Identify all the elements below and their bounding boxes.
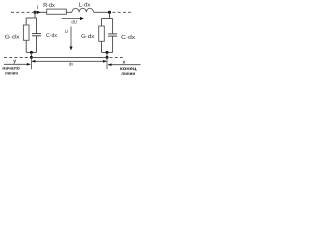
wire: bottom rail solid <box>31 56 107 58</box>
svg-text:i: i <box>37 4 38 11</box>
wire: right branch bottom join <box>102 51 113 53</box>
capacitor C·dx right (plates) <box>108 33 117 35</box>
node: bottom-right rail junction dot <box>106 56 109 59</box>
wire: top rail dashed lead-in (left) <box>11 11 33 13</box>
svg-text:y: y <box>13 59 16 65</box>
inductor L·dx (series, 3 arcs) <box>72 8 93 12</box>
svg-text:L·dx: L·dx <box>79 2 91 9</box>
wire: C1 bottom lead <box>36 36 38 53</box>
arrow dU (voltage differential) <box>62 18 82 20</box>
svg-text:C·dx: C·dx <box>46 33 57 39</box>
svg-text:dU: dU <box>71 20 77 25</box>
wire: G2 top lead <box>101 19 103 27</box>
extension line: left branch below rail <box>30 57 32 69</box>
svg-text:x: x <box>123 60 126 66</box>
wire: right node drop <box>109 12 111 18</box>
junction dot: right branch bottom <box>106 51 109 54</box>
svg-text:U: U <box>65 29 68 34</box>
svg-text:R·dx: R·dx <box>43 2 55 9</box>
wire: G1 top lead <box>25 18 27 25</box>
wire: G1 bottom lead <box>25 40 27 52</box>
arrow U (voltage, downward) <box>70 27 72 49</box>
capacitor C·dx left (plates) <box>32 33 41 35</box>
current arrow i (arrowhead on top rail) <box>37 11 41 14</box>
node: bottom-left rail junction dot <box>30 56 33 59</box>
wire: inductor to right node <box>94 11 110 13</box>
svg-text:линии: линии <box>121 72 135 77</box>
wire: left branch to bottom rail <box>30 52 32 57</box>
dimension line y (to line start) <box>4 63 30 65</box>
svg-text:C·dx: C·dx <box>121 34 135 41</box>
wire: G2 bottom lead <box>101 41 103 52</box>
wire: bottom rail dashed lead-out (right) <box>110 56 125 58</box>
wire: top rail dashed lead-out (right) <box>113 11 132 13</box>
wire: right branch top split <box>102 18 113 20</box>
wire: C2 top lead <box>112 19 114 34</box>
wire: C1 top lead <box>36 18 38 33</box>
conductance G·dx right (box) <box>99 26 105 41</box>
resistor R·dx (series) <box>47 9 67 14</box>
dimension line x (to line end) <box>108 64 140 66</box>
wire: left node drop <box>34 12 36 18</box>
svg-text:G·dx: G·dx <box>5 34 20 40</box>
svg-text:линии: линии <box>5 70 18 75</box>
conductance G·dx left (box) <box>23 25 29 40</box>
node: top-left junction dot <box>33 11 36 14</box>
extension line: right branch below rail <box>106 57 108 69</box>
svg-text:dx: dx <box>69 62 74 67</box>
junction dot: left branch bottom <box>30 51 33 54</box>
wire: resistor to inductor <box>66 11 72 13</box>
svg-text:G·dx: G·dx <box>81 34 95 40</box>
wire: node to resistor <box>35 11 47 13</box>
wire: C2 bottom lead <box>112 36 114 52</box>
node: top-right junction dot <box>108 11 111 14</box>
wire: right branch to bottom rail <box>106 52 108 57</box>
wire: bottom rail dashed lead-in (left) <box>4 56 30 58</box>
wire: left branch bottom join <box>26 51 36 53</box>
dimension line dx <box>32 60 106 62</box>
wire: left branch top split <box>26 17 36 19</box>
